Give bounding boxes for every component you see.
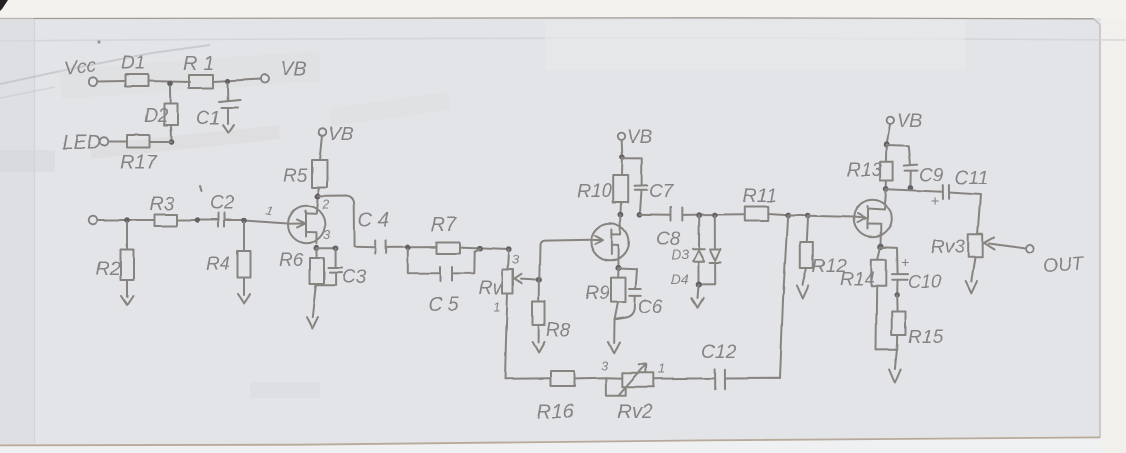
wire VB4 down bbox=[887, 124, 890, 145]
junction node E feedback bbox=[785, 213, 791, 219]
ground R4 bbox=[238, 294, 250, 303]
resistor R15 bbox=[892, 295, 944, 349]
junction D4 top bbox=[712, 212, 718, 218]
junction C4-C5 bbox=[405, 245, 411, 251]
wire RV1 bottom to feedback bbox=[505, 293, 508, 379]
terminal input bbox=[89, 216, 98, 225]
wire R5 to Q1 drain bbox=[317, 188, 320, 207]
resistor R14 bbox=[840, 247, 897, 349]
resistor R3 bbox=[155, 215, 177, 227]
svg-text:R5: R5 bbox=[283, 166, 308, 187]
svg-text:R13: R13 bbox=[847, 160, 882, 181]
resistor R12 bbox=[800, 216, 847, 285]
wire VB3 down bbox=[621, 140, 624, 157]
svg-text:C6: C6 bbox=[638, 297, 663, 318]
transistor Q2 bbox=[591, 222, 629, 268]
ground RV3 bbox=[966, 257, 977, 293]
junction R12 top bbox=[805, 213, 811, 219]
junction C10-R15 bbox=[895, 292, 900, 297]
junction input-R2 bbox=[124, 217, 130, 223]
wire to Q3 gate bbox=[808, 216, 854, 217]
svg-text:D4: D4 bbox=[671, 272, 688, 287]
subtle paper shading bbox=[0, 18, 34, 444]
wire D1 to R1 bbox=[148, 81, 190, 82]
wire D3 D4 join bbox=[699, 283, 716, 285]
svg-text:VB: VB bbox=[627, 127, 653, 148]
svg-text:VB: VB bbox=[328, 124, 354, 145]
potentiometer RV1 bbox=[479, 250, 513, 299]
junction R1-C1 bbox=[225, 78, 230, 83]
svg-text:VB: VB bbox=[897, 111, 923, 132]
svg-text:R4: R4 bbox=[206, 254, 230, 275]
junction Q2 source bbox=[616, 265, 622, 271]
wire source to C3 bbox=[316, 247, 335, 249]
capacitor C6 bbox=[615, 269, 663, 320]
capacitor C5 bbox=[408, 249, 480, 316]
svg-text:D1: D1 bbox=[121, 53, 145, 74]
svg-text:R8: R8 bbox=[546, 320, 571, 341]
wire R1 to VB bbox=[213, 79, 261, 82]
wire C11 to RV3 bbox=[950, 193, 981, 235]
junction C3 top bbox=[333, 245, 339, 251]
paper right edge bbox=[1094, 19, 1100, 438]
resistor R8 bbox=[533, 281, 571, 343]
wire VB to R5 bbox=[320, 136, 323, 160]
potentiometer RV3 bbox=[931, 234, 983, 258]
junction VB4-R13-C9 bbox=[884, 142, 890, 148]
wire Vcc to D1 bbox=[98, 80, 126, 83]
paper bottom edge line bbox=[0, 437, 1100, 445]
svg-text:R 1: R 1 bbox=[183, 53, 214, 75]
ground R12 bbox=[796, 286, 808, 299]
wire wiper to Q2 gate bbox=[539, 240, 591, 279]
svg-text:C 5: C 5 bbox=[428, 294, 460, 316]
svg-text:R15: R15 bbox=[908, 327, 943, 348]
junction Q3 source bbox=[878, 244, 884, 250]
junction D1-D2 bbox=[168, 81, 174, 87]
svg-text:1: 1 bbox=[493, 299, 500, 314]
resistor R11 bbox=[745, 207, 768, 221]
terminal Vcc bbox=[89, 77, 97, 85]
svg-text:R16: R16 bbox=[537, 401, 575, 423]
svg-text:VB: VB bbox=[280, 58, 307, 80]
wire drain node to C8 bbox=[640, 213, 671, 215]
svg-text:C3: C3 bbox=[342, 267, 367, 288]
svg-text:Rv: Rv bbox=[479, 278, 504, 299]
wire R17 to D2 bbox=[150, 141, 172, 143]
terminal VB2 bbox=[319, 129, 327, 137]
junction R3-C2 bbox=[195, 217, 200, 222]
diode D2 bbox=[144, 86, 178, 139]
svg-text:C9: C9 bbox=[919, 165, 944, 186]
junction RV1 top node 3 bbox=[506, 247, 512, 253]
capacitor C1 bbox=[196, 83, 240, 129]
RV1 wiper arrow bbox=[515, 274, 539, 283]
svg-text:C10: C10 bbox=[908, 272, 941, 292]
wire Q3 drain up bbox=[884, 189, 887, 200]
junction Q1 drain bbox=[315, 194, 321, 200]
svg-text:C 4: C 4 bbox=[358, 209, 389, 231]
wire LED to R17 bbox=[109, 141, 128, 143]
resistor R9 bbox=[585, 269, 626, 343]
wire C4 to R7 bbox=[386, 246, 437, 248]
ground R14 R15 bbox=[889, 350, 901, 383]
capacitor C12 bbox=[701, 342, 736, 389]
junction C7 bottom bbox=[637, 212, 643, 218]
wire RV2 to C12 bbox=[654, 377, 715, 379]
ground C1 bbox=[223, 125, 234, 133]
resistor R7 bbox=[437, 243, 460, 254]
junction C2-R4 bbox=[241, 218, 247, 224]
ground R6 bbox=[307, 317, 319, 329]
diode D3 bbox=[671, 215, 704, 284]
terminal LED bbox=[100, 137, 109, 146]
wire Q1 drain to C4 bbox=[318, 196, 375, 247]
junction D2-R17 bbox=[169, 139, 175, 145]
ground R8 bbox=[533, 342, 545, 353]
wire feedback vertical bbox=[780, 217, 788, 379]
wire node G to C11 bbox=[886, 189, 943, 192]
svg-text:3: 3 bbox=[323, 227, 331, 242]
resistor R2 bbox=[96, 222, 134, 297]
resistor R16 bbox=[537, 371, 575, 423]
svg-text:R3: R3 bbox=[150, 194, 175, 215]
svg-text:C2: C2 bbox=[210, 193, 235, 214]
capacitor C7 bbox=[622, 158, 674, 214]
svg-text:1: 1 bbox=[658, 361, 665, 376]
wire C12 to node E riser bbox=[725, 377, 780, 379]
capacitor C10 bbox=[881, 247, 941, 294]
svg-text:R11: R11 bbox=[743, 186, 776, 207]
diode D1 bbox=[125, 75, 148, 87]
resistor R1 bbox=[189, 75, 213, 88]
svg-text:+: + bbox=[931, 193, 940, 210]
junction C9 bottom bbox=[908, 185, 914, 191]
svg-text:R2: R2 bbox=[96, 259, 121, 280]
transistor Q1 bbox=[288, 206, 325, 243]
svg-text:C12: C12 bbox=[701, 342, 736, 363]
resistor R4 bbox=[206, 222, 250, 295]
junction Q3 drain node G bbox=[883, 186, 889, 192]
capacitor C4 bbox=[358, 209, 389, 254]
wire feedback bottom left bbox=[505, 377, 551, 380]
resistor R10 bbox=[577, 157, 628, 214]
resistor R6 bbox=[279, 248, 324, 284]
svg-text:D2: D2 bbox=[144, 106, 169, 127]
ground R2 bbox=[121, 296, 133, 305]
junction D3 top bbox=[696, 212, 702, 218]
svg-text:R17: R17 bbox=[120, 152, 158, 174]
svg-text:Vcc: Vcc bbox=[63, 55, 97, 80]
svg-text:C11: C11 bbox=[955, 168, 988, 189]
capacitor C11 bbox=[931, 168, 988, 210]
junction VB3-R10-C7 bbox=[620, 154, 626, 160]
svg-text:D3: D3 bbox=[671, 247, 689, 262]
junction Q1 source bbox=[314, 245, 320, 251]
black corner top-left bbox=[0, 0, 8, 11]
diode D4 bbox=[671, 215, 721, 287]
svg-text:Rv3: Rv3 bbox=[931, 237, 965, 258]
RV3 wiper arrow from OUT bbox=[985, 238, 1026, 250]
wire C2 to Q1 gate bbox=[225, 221, 288, 224]
svg-text:C7: C7 bbox=[649, 181, 675, 202]
svg-text:R10: R10 bbox=[577, 181, 612, 202]
junction R7-C5 bbox=[477, 246, 483, 252]
resistor R5 bbox=[312, 160, 328, 188]
wire R11 to node E bbox=[768, 214, 788, 215]
svg-text:R7: R7 bbox=[431, 214, 457, 236]
svg-text:LED: LED bbox=[62, 132, 101, 154]
wire C8 to R11 bbox=[683, 213, 745, 216]
capacitor C8 bbox=[656, 208, 682, 251]
paper top edge line bbox=[0, 18, 1094, 19]
svg-text:3: 3 bbox=[601, 358, 609, 373]
capacitor C9 bbox=[887, 146, 944, 188]
svg-text:R9: R9 bbox=[585, 283, 610, 304]
junction Q2 drain bbox=[618, 212, 624, 218]
wire R6 C3 join bbox=[312, 284, 335, 317]
resistor R17 bbox=[127, 135, 150, 148]
svg-text:3: 3 bbox=[512, 252, 520, 267]
wire RV2 wiper link bbox=[606, 378, 626, 396]
transistor Q3 bbox=[854, 200, 892, 244]
junction RV1 wiper node bbox=[536, 277, 542, 283]
svg-text:C1: C1 bbox=[196, 108, 220, 129]
svg-text:+: + bbox=[901, 254, 909, 270]
wire node E to R12 bbox=[788, 215, 808, 217]
wire R3 to C2 bbox=[177, 219, 218, 221]
wire R16 to RV2 bbox=[575, 377, 623, 380]
svg-text:OUT: OUT bbox=[1042, 253, 1085, 277]
junction diode bottom bbox=[696, 282, 702, 288]
wire R7 to RV1 bbox=[460, 248, 510, 250]
resistor R13 bbox=[847, 145, 893, 189]
capacitor C2 bbox=[200, 186, 235, 227]
terminal OUT bbox=[1026, 245, 1034, 253]
wire Q2 drain to node bbox=[620, 215, 622, 222]
svg-text:2: 2 bbox=[321, 197, 330, 212]
ground diodes bbox=[692, 285, 703, 307]
ground R9 bbox=[608, 342, 620, 353]
svg-text:Rv2: Rv2 bbox=[617, 401, 653, 423]
terminal VB3 bbox=[618, 133, 625, 140]
svg-text:R14: R14 bbox=[840, 269, 875, 290]
terminal VB4 bbox=[887, 117, 894, 124]
terminal VB1 bbox=[261, 75, 269, 83]
capacitor C3 bbox=[329, 248, 367, 288]
wire input to R3 bbox=[98, 219, 156, 221]
svg-text:R6: R6 bbox=[279, 250, 304, 271]
rheostat RV2 bbox=[617, 364, 654, 423]
